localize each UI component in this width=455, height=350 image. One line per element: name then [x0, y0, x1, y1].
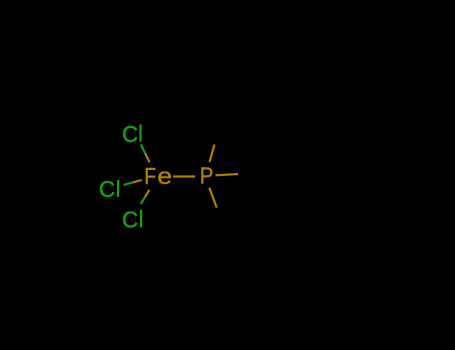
svg-text:F: F	[144, 163, 156, 189]
svg-text:e: e	[157, 163, 172, 189]
svg-text:C: C	[122, 121, 138, 148]
atom label Cl bottom : l stem	[140, 210, 142, 228]
wire P-CH3 right bond	[216, 174, 239, 175]
svg-text:C: C	[99, 175, 115, 202]
wire Cl(left)-Fe gold half	[133, 180, 142, 183]
wire Cl(bottom)-Fe gold half	[145, 190, 149, 197]
svg-text:C: C	[122, 206, 138, 233]
atom label Cl left : l stem	[117, 180, 119, 197]
wire Fe-P bond	[173, 175, 195, 177]
wire Cl(top)-Fe green half	[141, 144, 145, 153]
wire Cl(top)-Fe gold half	[145, 154, 149, 163]
wire P-CH3 down bond	[209, 188, 216, 208]
atom label Cl top : l stem	[139, 124, 141, 141]
wire P-CH3 up bond	[210, 145, 215, 163]
wire Cl(left)-Fe green half	[124, 182, 133, 185]
wire Cl(bottom)-Fe green half	[141, 197, 145, 204]
svg-text:P: P	[200, 162, 214, 189]
